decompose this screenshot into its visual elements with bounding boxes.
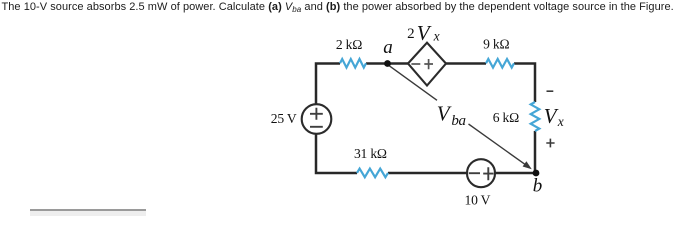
svg-text:x: x: [557, 114, 564, 129]
svg-text:6 kΩ: 6 kΩ: [493, 110, 519, 125]
svg-text:x: x: [433, 28, 440, 43]
svg-text:10 V: 10 V: [465, 193, 491, 208]
svg-text:V: V: [417, 21, 432, 45]
svg-text:b: b: [533, 175, 543, 196]
svg-text:2 kΩ: 2 kΩ: [336, 37, 362, 52]
svg-text:V: V: [437, 102, 452, 126]
svg-text:9 kΩ: 9 kΩ: [483, 37, 509, 52]
svg-text:a: a: [383, 37, 393, 58]
svg-text:25 V: 25 V: [271, 111, 297, 126]
svg-text:2: 2: [407, 26, 415, 42]
svg-text:31 kΩ: 31 kΩ: [354, 146, 387, 161]
svg-text:V: V: [544, 104, 559, 128]
svg-text:ba: ba: [451, 113, 465, 129]
